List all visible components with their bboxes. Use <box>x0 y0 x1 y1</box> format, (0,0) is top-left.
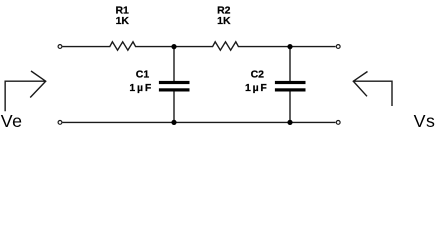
svg-text:Vs: Vs <box>414 111 436 131</box>
svg-text:1K: 1K <box>217 15 231 27</box>
svg-text:Ve: Ve <box>1 111 23 131</box>
svg-text:1µF: 1µF <box>245 82 269 94</box>
svg-text:C2: C2 <box>251 69 265 81</box>
svg-text:C1: C1 <box>136 69 150 81</box>
svg-text:1µF: 1µF <box>129 82 153 94</box>
svg-text:1K: 1K <box>116 15 130 27</box>
